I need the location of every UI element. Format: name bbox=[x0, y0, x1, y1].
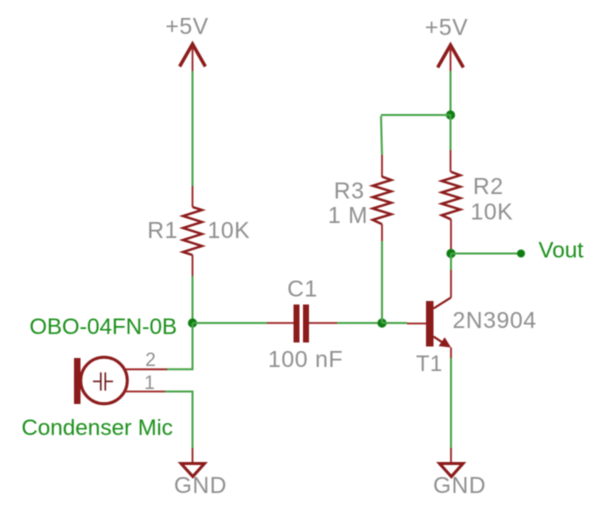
resistor R2 bbox=[442, 172, 461, 220]
svg-text:+5V: +5V bbox=[165, 13, 208, 39]
wire: Vout stub bbox=[451, 253, 521, 255]
wire: junction down to R2 (green part) bbox=[450, 115, 452, 150]
svg-text:+5V: +5V bbox=[425, 14, 468, 40]
transistor emitter arrowhead bbox=[439, 337, 451, 347]
mic body circle bbox=[81, 357, 128, 404]
svg-text:GND: GND bbox=[433, 472, 486, 498]
wire: emitter down to GND bbox=[450, 358, 452, 448]
wire lead red below R3 bbox=[381, 224, 383, 241]
wire lead red below R2 to Vout node bbox=[450, 219, 452, 253]
svg-text:R3: R3 bbox=[334, 178, 365, 204]
svg-text:OBO-04FN-0B: OBO-04FN-0B bbox=[30, 314, 178, 339]
wire: horizontal from junction to R3 column bbox=[382, 114, 451, 116]
wire: R3 bottom to junction bbox=[381, 241, 383, 323]
wire: junction to transistor base (green part) bbox=[382, 322, 407, 324]
pin 1 lead red from mic bbox=[124, 391, 166, 393]
transistor base bar bbox=[426, 301, 434, 347]
svg-text:1: 1 bbox=[144, 373, 155, 394]
resistor R1 bbox=[183, 207, 202, 255]
ground symbol (right) bbox=[440, 464, 464, 477]
svg-text:R2: R2 bbox=[473, 173, 504, 199]
svg-text:1 M: 1 M bbox=[328, 202, 368, 228]
svg-text:R1: R1 bbox=[147, 217, 178, 243]
wire lead red above R1 bbox=[192, 186, 194, 207]
transistor collector diagonal bbox=[434, 298, 452, 309]
svg-text:Condenser Mic: Condenser Mic bbox=[22, 415, 173, 440]
wire lead red below R1 bbox=[192, 255, 194, 276]
wire: pin 1 to GND column (green) bbox=[166, 391, 193, 393]
mic diaphragm bar bbox=[74, 358, 81, 404]
node junction top right rail bbox=[446, 110, 455, 119]
wire lead red out of C1 right bbox=[309, 322, 337, 324]
wire lead red above R3 bbox=[381, 155, 383, 177]
wire: down R3 column to R3 bbox=[381, 116, 382, 155]
mic internal capacitor symbol bbox=[93, 372, 113, 390]
svg-text:GND: GND bbox=[174, 472, 227, 498]
node junction at R3 bottom / base wire bbox=[377, 318, 386, 327]
wire: horizontal junction to C1 (green part) bbox=[193, 322, 268, 324]
svg-text:10K: 10K bbox=[208, 217, 251, 243]
svg-text:2: 2 bbox=[145, 350, 156, 371]
wire lead red below emitter bbox=[450, 348, 452, 359]
wire lead red above right GND bbox=[450, 448, 452, 463]
wire: left +5V rail down to R1 bbox=[192, 71, 194, 186]
wire lead red into C1 left bbox=[267, 322, 294, 324]
capacitor C1 bbox=[294, 305, 310, 343]
node Vout endpoint dot bbox=[517, 250, 525, 258]
power +5V symbol arrow (right rail) bbox=[439, 45, 463, 72]
wire: R1 to junction bbox=[192, 276, 194, 323]
svg-text:2N3904: 2N3904 bbox=[453, 307, 537, 333]
wire lead red above R2 bbox=[450, 150, 452, 172]
svg-text:C1: C1 bbox=[287, 276, 318, 302]
wire: junction down to mic pin 2 bbox=[192, 323, 194, 369]
wire lead red into base bbox=[407, 323, 426, 325]
power +5V symbol arrow (left rail) bbox=[181, 44, 205, 72]
svg-text:T1: T1 bbox=[416, 351, 443, 376]
microphone MIC1 condenser bbox=[74, 357, 127, 404]
wire: Vout node down to collector (green part) bbox=[450, 254, 452, 271]
wire: C1 to junction under R3 bbox=[337, 322, 382, 324]
wire: down to left GND bbox=[192, 392, 194, 449]
pin 2 lead red from mic bbox=[124, 368, 168, 370]
node junction Vout bbox=[446, 249, 455, 258]
ground symbol (left) bbox=[181, 464, 205, 477]
svg-text:100 nF: 100 nF bbox=[268, 346, 343, 372]
wire lead red collector vertical bbox=[450, 270, 452, 298]
resistor R3 bbox=[373, 177, 392, 225]
transistor emitter diagonal bbox=[434, 337, 448, 346]
wire: pin 2 to junction column (green) bbox=[168, 368, 193, 370]
wire lead red above left GND bbox=[192, 448, 194, 463]
svg-text:Vout: Vout bbox=[539, 238, 585, 263]
node junction at R1 / C1 / mic pin2 bbox=[188, 318, 197, 327]
transistor T1 2N3904 bbox=[426, 298, 451, 348]
svg-text:10K: 10K bbox=[471, 199, 514, 225]
wire: right +5V rail down to top junction bbox=[450, 71, 452, 115]
